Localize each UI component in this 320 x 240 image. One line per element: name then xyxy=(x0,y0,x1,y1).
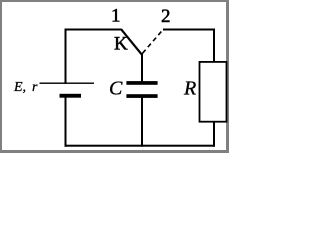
wire: left branch upper (top corner down to battery thin plate) xyxy=(65,29,67,84)
wire: right branch lower (resistor box to bottom wire) xyxy=(213,121,215,147)
svg-text:r: r xyxy=(32,80,38,95)
switch K: blade (solid arm from contact 1 to pivot) xyxy=(121,29,142,54)
capacitor C: bottom plate xyxy=(126,94,157,98)
wire: left branch lower (battery thick plate down to bottom wire) xyxy=(65,95,67,147)
svg-text:K: K xyxy=(114,34,128,55)
resistor R: box xyxy=(200,62,227,122)
battery E,r: long thin positive plate xyxy=(40,83,95,84)
wire: right branch upper (top-right corner to resistor box) xyxy=(213,29,215,63)
capacitor C: top plate xyxy=(126,81,157,85)
svg-text:1: 1 xyxy=(111,6,121,27)
svg-text:C: C xyxy=(109,78,123,100)
wire: top-right segment (switch contact 2 to top-right corner) xyxy=(163,29,215,31)
wire: top-left segment (battery top corner to switch contact 1) xyxy=(65,29,122,31)
wire: bottom wire xyxy=(65,145,216,147)
battery E,r: short thick negative plate xyxy=(60,94,82,98)
frame border (image border, gray) xyxy=(0,0,229,2)
switch K: dashed arm (pivot to contact 2) xyxy=(143,29,164,53)
wire: capacitor branch lower (capacitor bottom plate to bottom wire) xyxy=(141,97,143,147)
svg-text:2: 2 xyxy=(161,6,171,27)
svg-text:E,: E, xyxy=(13,80,26,95)
wire: capacitor branch upper (switch pivot down to capacitor top plate) xyxy=(141,53,143,82)
svg-text:R: R xyxy=(183,78,196,100)
